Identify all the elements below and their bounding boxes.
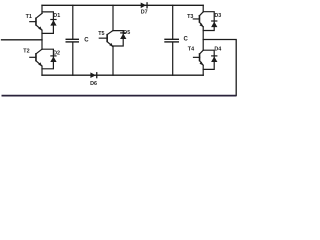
svg-text:C: C (184, 37, 189, 43)
svg-text:T4: T4 (188, 46, 194, 52)
svg-text:D6: D6 (90, 81, 97, 87)
svg-text:D5: D5 (123, 30, 130, 36)
svg-text:D3: D3 (214, 13, 221, 19)
svg-text:D1: D1 (53, 13, 60, 19)
svg-text:T1: T1 (26, 14, 32, 20)
svg-text:C: C (84, 38, 89, 44)
svg-text:T3: T3 (187, 14, 193, 20)
svg-text:D7: D7 (141, 9, 148, 15)
svg-text:D4: D4 (214, 46, 221, 52)
svg-text:T2: T2 (23, 49, 29, 55)
svg-text:T5: T5 (98, 31, 104, 37)
svg-text:D2: D2 (53, 51, 60, 57)
